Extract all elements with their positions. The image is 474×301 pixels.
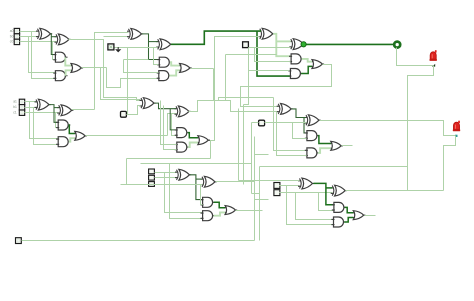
probe pin K4	[259, 120, 265, 126]
wire XOR13 to XOR14	[196, 178, 202, 180]
svg-text:a1: a1	[13, 100, 17, 104]
wire XOR16 out run	[346, 190, 444, 192]
wire AND3b in1 feed	[124, 60, 159, 73]
wire K4 wire	[265, 122, 307, 124]
AND gate AND3	[159, 57, 169, 67]
output ring	[394, 42, 400, 48]
AND gate AND8	[177, 128, 187, 138]
wire OR7 out	[236, 210, 263, 212]
wire OR2 to XOR11 riser	[214, 69, 279, 112]
XOR gate XOR1	[38, 28, 51, 39]
wire a3	[155, 172, 177, 174]
wire XOR7 out junction	[49, 105, 58, 123]
wire XOR5 out to XOR6	[276, 40, 291, 42]
wire OR8 out	[365, 215, 376, 217]
wire stair h54	[226, 54, 277, 56]
AND gate AND5	[290, 69, 300, 79]
wire v252 link	[252, 193, 260, 195]
wire K4 left stub	[252, 122, 259, 124]
AND gate AND9	[177, 142, 187, 152]
wire LED1 loop down	[408, 66, 434, 191]
wire AND9 in2 feed	[164, 106, 177, 150]
wire AND6 out to OR4	[69, 125, 75, 134]
wire dark drop to AND5	[257, 31, 290, 76]
wire AND5 in1 feed	[249, 70, 290, 72]
AND gate AND13	[307, 148, 317, 158]
wire AND13 out to OR6	[318, 148, 331, 153]
wire v127	[126, 159, 128, 185]
wire AND7 out to OR4	[69, 138, 75, 142]
junction dot	[301, 42, 306, 47]
wire a0	[20, 31, 38, 33]
wire ring to LED1	[397, 48, 434, 66]
wire c0 drop to AND1	[53, 42, 55, 60]
constant pin K2	[243, 42, 249, 48]
AND gate AND11	[203, 197, 213, 207]
wire XOR1 out to XOR2	[51, 36, 56, 38]
wire b0	[20, 36, 38, 38]
wire XOR5 out junction	[273, 34, 290, 56]
wire XOR7 to XOR8	[54, 107, 59, 109]
wire a3 drop	[165, 173, 203, 213]
wire dark carry XOR4	[171, 31, 261, 44]
input pin group S	[16, 238, 22, 244]
wire c0	[20, 41, 57, 43]
wire OR1 out	[82, 67, 107, 69]
wire v259 descender	[259, 167, 261, 241]
wire XOR11 out junction	[292, 109, 306, 118]
wire cinG drop AND11	[201, 185, 203, 205]
wire OR4 riser	[168, 114, 177, 136]
wire v238	[238, 109, 240, 181]
wire AND9 out to OR5	[188, 143, 198, 148]
wire OR3 out loop	[241, 65, 332, 107]
wire b4	[280, 192, 333, 194]
svg-text:c1: c1	[13, 111, 17, 115]
wire LED2 loop	[444, 136, 456, 191]
wire XOR11 drop AND10	[304, 118, 306, 133]
wire AND5 out to OR3	[301, 66, 312, 73]
svg-text:a0: a0	[10, 29, 14, 33]
LED2 pin dot	[455, 135, 457, 137]
OR gate OR3	[312, 60, 322, 69]
wire sum riser drop AND13	[274, 98, 307, 151]
wire OR4 drop AND8	[172, 114, 177, 136]
XOR gate XOR8	[59, 105, 72, 116]
svg-text:b0: b0	[10, 34, 14, 38]
wire AND1 out to OR1	[65, 57, 71, 65]
XOR gate XOR12	[306, 115, 319, 126]
wire AND13 in2 feed	[277, 112, 307, 156]
wire XOR1 out junction	[51, 34, 55, 55]
XOR gate XOR10	[176, 106, 189, 117]
OR gate OR6	[331, 141, 341, 150]
wire carry0 riser	[95, 33, 129, 110]
wire b1	[25, 107, 37, 109]
LED2	[454, 122, 460, 129]
wire a1	[25, 101, 37, 103]
wire XOR3 out junction	[142, 34, 159, 60]
XOR gate XOR15	[300, 178, 313, 189]
wire h167 run	[260, 166, 408, 168]
wire OR6 out stub	[342, 145, 353, 147]
wire a0 drop to AND2	[32, 32, 55, 79]
wire cinB drop to AND3	[154, 48, 159, 65]
wire AND4 out to OR3	[302, 59, 312, 62]
wire AND8 out to OR5	[188, 133, 198, 138]
wire AND3b out to OR2	[169, 70, 179, 75]
wire OR5 riser to XOR5	[209, 37, 260, 141]
wire sum7 to output	[304, 43, 394, 45]
wire b4 drop AND14	[319, 193, 334, 211]
wire XOR12 sum to LED2	[320, 121, 456, 136]
wire b1 drop	[34, 108, 58, 145]
wire AND3 in1 pale feed	[124, 59, 149, 61]
AND gate AND4	[291, 54, 301, 64]
wire v254 stub2	[255, 199, 269, 201]
wire cinC	[249, 47, 291, 49]
wire cinB	[114, 47, 158, 49]
input pin group G	[149, 169, 155, 174]
input pin group D	[19, 99, 24, 104]
wire a4	[280, 185, 300, 187]
constant pin K1	[108, 44, 114, 50]
wire a4 drop	[287, 186, 333, 225]
LED1 pin junction	[432, 64, 435, 67]
wire xor2 branch to XOR3	[104, 36, 129, 38]
AND gate AND3b	[159, 71, 169, 81]
AND gate AND12	[203, 211, 213, 221]
wire v243	[243, 105, 245, 185]
wire AND14 out to OR8	[345, 207, 354, 212]
wire cinC drop AND5	[244, 48, 249, 105]
wire c1	[25, 112, 59, 114]
wire AND2 out to OR1	[66, 70, 71, 75]
wire K4 drop AND10	[293, 123, 307, 139]
ground symbol	[117, 47, 119, 49]
wire b3 drop	[170, 164, 203, 219]
wire XOR2 sum drop	[69, 40, 141, 101]
wire b4 drop	[296, 193, 333, 220]
wire h163	[141, 163, 252, 165]
svg-text:b1: b1	[13, 105, 17, 109]
AND gate AND7	[58, 137, 68, 147]
wire a1 drop	[30, 102, 58, 139]
AND gate AND14	[334, 202, 344, 212]
wire XOR9 out junction	[154, 103, 176, 109]
wire v254 stub1	[255, 154, 269, 156]
XOR gate XOR5	[260, 28, 273, 39]
AND gate AND10	[307, 131, 317, 141]
XOR gate XOR3	[129, 29, 142, 40]
wire K1 drop to K3	[127, 48, 129, 115]
wire stair v225	[225, 55, 227, 101]
OR gate OR1	[71, 64, 81, 73]
OR gate OR7	[225, 206, 235, 215]
XOR gate XOR6	[291, 39, 304, 50]
input pin group H	[274, 183, 280, 189]
wire XOR15 to XOR16	[326, 187, 332, 189]
XOR gate XOR14	[202, 176, 215, 187]
XOR gate XOR16	[332, 185, 345, 196]
svg-text:c0: c0	[10, 40, 14, 44]
wire AND11 out to OR7	[214, 202, 226, 207]
OR gate OR8	[353, 211, 363, 220]
wire AND9 in1 feed	[161, 101, 177, 145]
AND gate AND2	[55, 71, 65, 81]
wire K3 wire	[127, 106, 141, 115]
wire cinC drop AND4	[255, 48, 291, 62]
wire AND12 out to OR7	[214, 212, 226, 215]
wire AND15 out to OR8	[344, 218, 353, 223]
wire b0 drop to AND2	[29, 37, 55, 73]
wire XOR8 sum up	[72, 109, 95, 111]
wire XOR15 in1 feed	[239, 180, 300, 182]
wire AND3 out to OR2	[170, 62, 180, 65]
wire AND10 out to OR6	[318, 136, 331, 144]
XOR gate XOR13	[177, 169, 190, 180]
wire XOR9 drop AND8	[170, 109, 176, 130]
wire XOR15 out junction	[313, 183, 333, 204]
wire XOR14 out	[216, 181, 255, 183]
wire bottom bus	[22, 240, 255, 242]
OR gate OR4	[75, 131, 85, 140]
LED1	[430, 52, 436, 59]
wire OR1 drop to XOR9	[101, 68, 141, 100]
XOR gate XOR9	[141, 98, 154, 109]
wire OR4 out	[86, 135, 168, 137]
AND gate AND6	[58, 120, 68, 130]
wire OR2 out	[191, 68, 214, 70]
XOR gate XOR4	[158, 39, 171, 50]
OR gate OR5	[198, 136, 208, 145]
wire b3	[155, 177, 177, 179]
wire c1 drop	[56, 113, 58, 128]
wire OR1 stair to AND3b	[107, 68, 159, 88]
probe pin K3	[121, 111, 127, 117]
OR gate OR2	[180, 64, 190, 73]
input pin group A	[14, 28, 19, 33]
wire XOR13 out junction	[190, 175, 202, 200]
wire XOR3 out to XOR4	[149, 41, 158, 43]
wire v211	[210, 141, 212, 159]
wire v254 riser	[254, 137, 256, 241]
wire h158	[127, 158, 211, 160]
AND gate AND1	[55, 52, 65, 62]
XOR gate XOR7	[36, 99, 49, 110]
XOR gate XOR2	[56, 34, 69, 45]
XOR gate XOR11	[278, 104, 291, 115]
AND gate AND15	[334, 217, 344, 227]
wire v251	[251, 123, 253, 194]
wire XOR10 sum riser	[189, 98, 274, 112]
wire cinG	[121, 184, 203, 186]
